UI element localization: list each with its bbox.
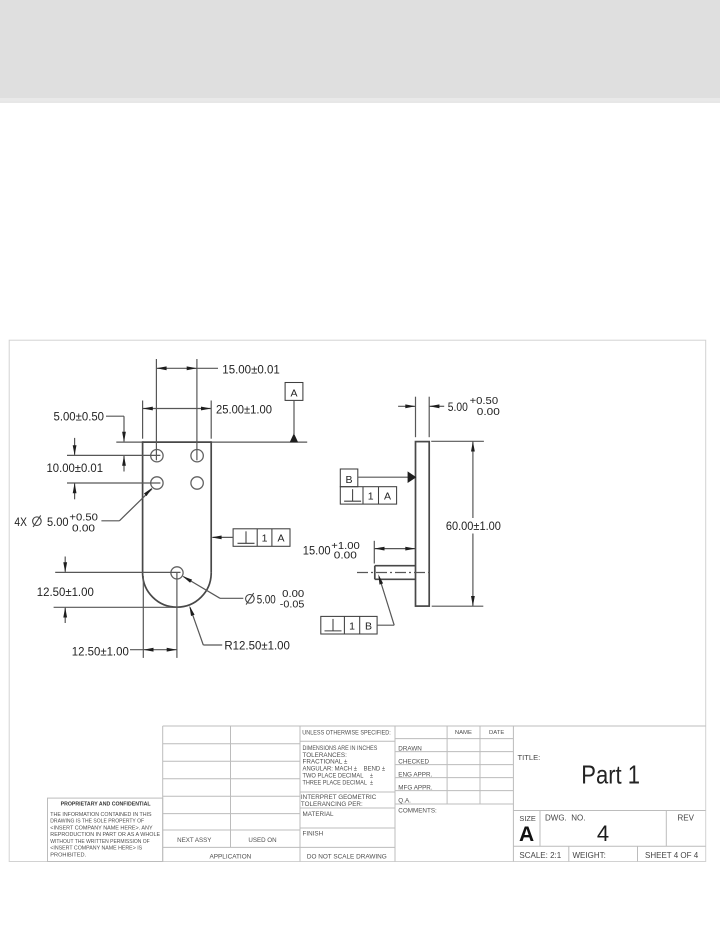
dimension 60.00±1.00 xyxy=(431,441,501,606)
datum B symbol with leader triangle xyxy=(340,469,416,487)
svg-text:0.00: 0.00 xyxy=(282,589,304,600)
svg-text:B: B xyxy=(365,620,372,632)
dimension R12.50±1.00 with leader xyxy=(189,606,290,653)
svg-text:5.00: 5.00 xyxy=(257,593,276,607)
dimension 12.50±1.00 (horizontal, bottom) xyxy=(72,573,177,658)
svg-text:25.00±1.00: 25.00±1.00 xyxy=(216,403,272,417)
svg-text:Q.A.: Q.A. xyxy=(398,798,411,805)
svg-text:TITLE:: TITLE: xyxy=(518,753,541,762)
svg-text:THE INFORMATION CONTAINED IN T: THE INFORMATION CONTAINED IN THIS xyxy=(50,812,152,818)
svg-text:0.00: 0.00 xyxy=(334,551,358,562)
svg-text:ANGULAR: MACH ± BEND ±: ANGULAR: MACH ± BEND ± xyxy=(303,766,386,773)
svg-text:4: 4 xyxy=(597,821,609,846)
hole H2 top-right xyxy=(191,450,203,462)
svg-text:10.00±0.01: 10.00±0.01 xyxy=(47,461,104,475)
svg-text:1: 1 xyxy=(349,620,355,632)
svg-text:DRAWN: DRAWN xyxy=(398,746,422,753)
svg-text:0.00: 0.00 xyxy=(72,523,96,534)
proprietary and confidential text xyxy=(50,801,160,858)
svg-text:COMMENTS:: COMMENTS: xyxy=(398,808,437,815)
svg-text:PROHIBITED.: PROHIBITED. xyxy=(50,852,86,858)
title separators xyxy=(513,810,705,812)
svg-text:DATE: DATE xyxy=(489,730,504,736)
side view plate outline xyxy=(416,442,430,606)
svg-text:15.00: 15.00 xyxy=(303,543,331,557)
svg-text:0.00: 0.00 xyxy=(477,407,501,418)
svg-text:FINISH: FINISH xyxy=(303,830,324,837)
proprietary box xyxy=(48,798,163,861)
svg-text:DRAWING IS THE SOLE PROPERTY O: DRAWING IS THE SOLE PROPERTY OF xyxy=(50,819,144,825)
svg-text:SCALE: 2:1: SCALE: 2:1 xyxy=(519,851,561,860)
hole H4 second-row-right xyxy=(191,477,203,489)
svg-text:12.50±1.00: 12.50±1.00 xyxy=(72,644,129,658)
front view bottom semicircular arc R12.50 xyxy=(143,573,212,607)
tolerance box rows xyxy=(300,740,395,742)
title block grid xyxy=(48,726,706,862)
svg-text:DWG. NO.: DWG. NO. xyxy=(545,814,585,823)
front view left edge xyxy=(142,441,144,573)
svg-text:REV: REV xyxy=(678,814,695,823)
svg-text:1: 1 xyxy=(262,533,268,545)
hole H1 top-left xyxy=(151,450,163,462)
side view pin/boss xyxy=(375,566,416,580)
svg-text:NEXT ASSY: NEXT ASSY xyxy=(177,837,211,844)
svg-text:<INSERT COMPANY NAME HERE> IS: <INSERT COMPANY NAME HERE> IS xyxy=(50,846,142,852)
title block texts xyxy=(177,729,699,860)
svg-text:A: A xyxy=(277,533,284,545)
svg-text:APPLICATION: APPLICATION xyxy=(210,853,252,860)
sheet border xyxy=(9,340,706,861)
name/date rows xyxy=(395,738,513,740)
svg-text:+0.50: +0.50 xyxy=(69,512,98,523)
svg-text:CHECKED: CHECKED xyxy=(398,759,429,766)
svg-text:REPRODUCTION IN PART OR AS A W: REPRODUCTION IN PART OR AS A WHOLE xyxy=(50,832,160,838)
feature control frame ⊥|1|A (side view, under datum B) xyxy=(340,487,396,504)
svg-text:+0.50: +0.50 xyxy=(470,396,499,407)
left application table rows xyxy=(163,743,300,745)
svg-text:A: A xyxy=(384,491,391,503)
datum A symbol xyxy=(285,383,303,443)
hole H5 bottom center xyxy=(171,567,183,579)
svg-text:60.00±1.00: 60.00±1.00 xyxy=(446,519,501,533)
svg-text:A: A xyxy=(519,823,534,846)
dimension 5.00±0.50 (top of holes) xyxy=(54,410,161,472)
feature control frame ⊥|1|A (front view) xyxy=(211,529,290,547)
svg-text:1: 1 xyxy=(368,491,374,503)
svg-text:12.50±1.00: 12.50±1.00 xyxy=(37,585,94,599)
svg-text:4X: 4X xyxy=(14,515,27,529)
svg-text:A: A xyxy=(290,388,297,400)
dimension 15.00±0.01 xyxy=(156,359,280,460)
dimension 25.00±1.00 xyxy=(143,401,273,439)
svg-text:R12.50±1.00: R12.50±1.00 xyxy=(224,638,290,652)
svg-text:ENG APPR.: ENG APPR. xyxy=(398,772,432,779)
top gray band xyxy=(0,0,720,98)
front view right edge xyxy=(210,441,212,573)
pin centerline xyxy=(357,572,430,574)
dimension 12.50±1.00 (vertical, bottom hole) xyxy=(37,557,181,624)
svg-text:5.00: 5.00 xyxy=(448,400,468,414)
svg-text:DO NOT SCALE DRAWING: DO NOT SCALE DRAWING xyxy=(307,854,387,861)
hole H3 second-row-left xyxy=(151,477,163,489)
svg-text:<INSERT COMPANY NAME HERE>. A: <INSERT COMPANY NAME HERE>. ANY xyxy=(50,825,153,831)
svg-text:THREE PLACE DECIMAL ±: THREE PLACE DECIMAL ± xyxy=(303,779,374,786)
svg-text:FRACTIONAL ±: FRACTIONAL ± xyxy=(303,758,348,765)
dimension 10.00±0.01 xyxy=(47,438,161,499)
svg-text:INTERPRET GEOMETRIC: INTERPRET GEOMETRIC xyxy=(301,794,377,801)
svg-text:TOLERANCING PER:: TOLERANCING PER: xyxy=(301,801,363,808)
svg-text:PROPRIETARY AND CONFIDENTIAL: PROPRIETARY AND CONFIDENTIAL xyxy=(61,801,152,807)
svg-text:MATERIAL: MATERIAL xyxy=(303,811,335,818)
svg-text:MFG APPR.: MFG APPR. xyxy=(398,785,433,792)
svg-text:5.00: 5.00 xyxy=(47,515,69,529)
feature control frame ⊥|1|B (pin) with leader xyxy=(321,574,394,634)
dimension 5.00 +0.50/0.00 (side thickness) xyxy=(398,396,500,437)
dimension 15.00 +1.00/0.00 (pin length) xyxy=(303,541,416,564)
svg-text:B: B xyxy=(345,474,352,486)
dimension ⌀5.00 0.00/-0.05 with leader xyxy=(182,576,304,611)
svg-text:-0.05: -0.05 xyxy=(280,600,305,611)
svg-text:Part 1: Part 1 xyxy=(581,760,640,790)
dimension 4X ⌀5.00 +0.50/0.00 with leader xyxy=(14,488,152,535)
svg-text:SIZE: SIZE xyxy=(519,814,535,823)
svg-text:NAME: NAME xyxy=(455,730,472,736)
front view top edge line (with extensions) xyxy=(116,441,307,443)
svg-text:WITHOUT THE WRITTEN PERMISSION: WITHOUT THE WRITTEN PERMISSION OF xyxy=(50,839,150,845)
svg-text:15.00±0.01: 15.00±0.01 xyxy=(222,362,280,376)
svg-text:5.00±0.50: 5.00±0.50 xyxy=(54,410,105,424)
svg-text:WEIGHT:: WEIGHT: xyxy=(573,851,606,860)
svg-text:UNLESS OTHERWISE SPECIFIED:: UNLESS OTHERWISE SPECIFIED: xyxy=(302,729,391,736)
svg-text:USED ON: USED ON xyxy=(248,837,276,844)
svg-text:SHEET 4 OF 4: SHEET 4 OF 4 xyxy=(645,851,699,860)
